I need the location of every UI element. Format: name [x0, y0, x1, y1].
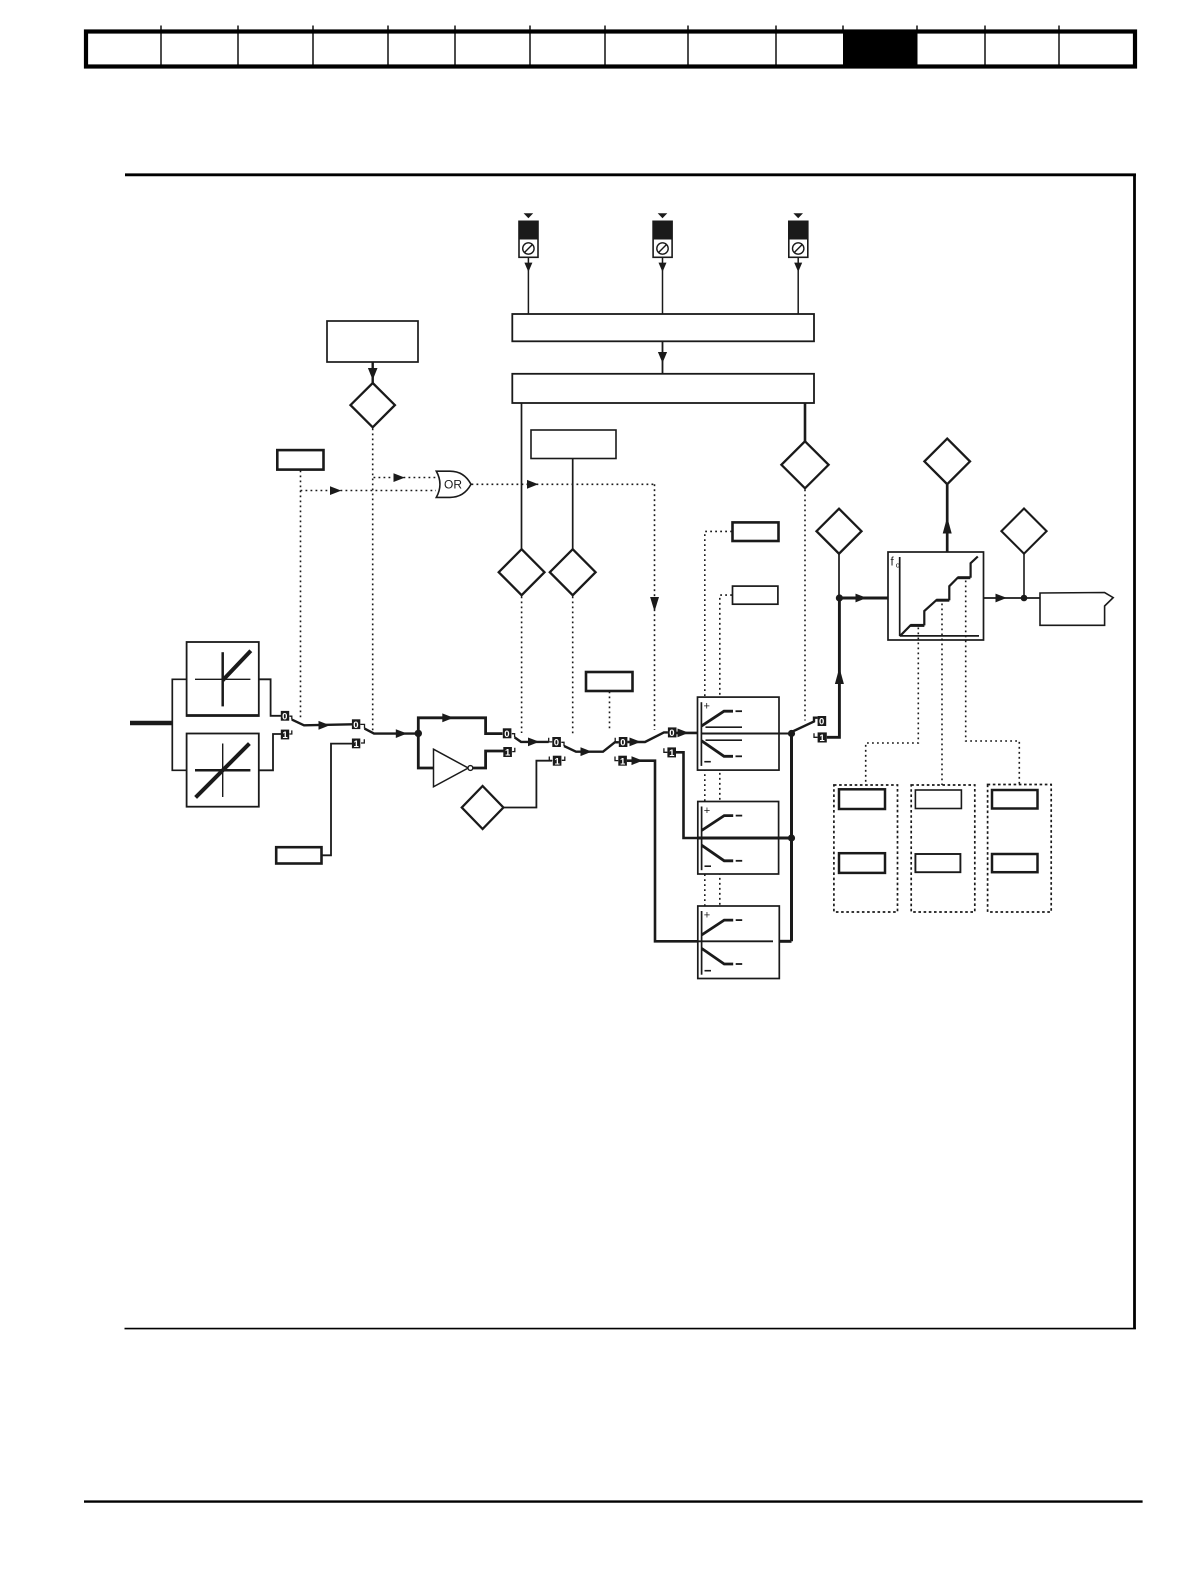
dotted control net from R1 to OR gate input 2 with arrow: [301, 471, 437, 719]
wire J1 lower branch into NOT gate: [418, 733, 433, 768]
dotted branch from D1 net to OR gate input 1 with arrow: [374, 473, 437, 482]
junction node J2: [836, 594, 843, 601]
limit block C3: [698, 906, 780, 979]
wire D7 to SW4 contact 1: [503, 761, 552, 808]
wire J2 to f(x) box with arrow: [839, 594, 888, 603]
parameter box R1 (small thick, left): [277, 450, 323, 470]
footer rule: [84, 1500, 1143, 1502]
switch SW5 contact 1: [615, 756, 627, 768]
main wire SWout 1 up to f(x) with up arrow: [827, 598, 844, 737]
parameter box B1 (top left): [327, 321, 418, 362]
parameter box R3 (small thick, middle): [586, 672, 633, 691]
wire R4 to SW2 contact 1: [322, 744, 353, 856]
switch SW4 contact 0: [552, 737, 564, 749]
dotted net OR output to down-arrow into switch SW3: [472, 480, 660, 730]
wire D4 down to junction J2: [838, 554, 840, 598]
svg-text:0: 0: [504, 729, 509, 740]
dotted control net R5 to limit blocks: [705, 531, 732, 906]
wire bar2 down to diamond D1b: [804, 403, 807, 442]
reference selector bar 1: [512, 314, 814, 341]
SW5 contact 1 wire with arrow to limit box C3: [627, 756, 698, 941]
transfer function box BB (bipolar): [187, 734, 259, 807]
decision diamond D6: [1001, 509, 1046, 554]
output bus joining C1 C2 C3: [779, 730, 795, 941]
dotted parameter group box A: [834, 785, 898, 912]
analog input pot terminal T2: [653, 213, 672, 314]
decision diamond D5: [924, 439, 970, 485]
dotted parameter group box C: [988, 785, 1052, 913]
wire R2 to diamond D3: [572, 459, 574, 550]
dotted control net D2 to switch SW4: [521, 597, 523, 734]
switch SW1 contact 1: [281, 730, 292, 742]
svg-text:1: 1: [819, 733, 825, 744]
header cell tick marks: [161, 26, 1059, 32]
output switch SWout pole wire: [792, 718, 818, 732]
parameter box R2: [531, 430, 616, 459]
dotted net f(x) right to parameter group C: [966, 581, 1020, 786]
input branch bracket: [172, 679, 186, 770]
output switch SWout contact 1: [814, 732, 827, 744]
wire bar2 to diamond D2: [521, 403, 523, 550]
NOT gate (inverter): [434, 749, 473, 787]
svg-text:+: +: [704, 909, 710, 921]
switch SW3 contact 0: [503, 728, 515, 740]
switch SW6 contact 1: [664, 747, 676, 759]
svg-text:OR: OR: [444, 478, 462, 492]
diagram frame right line: [1133, 174, 1136, 1329]
dotted parameter group box B: [911, 785, 975, 912]
decision diamond D1b: [781, 441, 828, 488]
dotted control net D1b to output switch SWout: [804, 490, 806, 721]
header cell dividers: [161, 33, 1059, 65]
svg-text:1: 1: [620, 756, 626, 767]
limit block C2: [698, 802, 779, 875]
decision diamond D1: [351, 383, 395, 427]
switch SW2 contact 1: [352, 739, 364, 751]
wire J1 upper branch to SW3 contact 0 with arrow: [418, 713, 502, 733]
switch SW1 contact 0: [281, 711, 292, 723]
parameter box R5 (thick, above limit blocks): [733, 522, 779, 541]
svg-text:1: 1: [282, 730, 288, 741]
junction node J1: [415, 730, 422, 737]
dotted control net D3 to switch SW4: [572, 597, 574, 736]
svg-text:0: 0: [554, 738, 559, 749]
parameter box R4 (small thick, lower left): [276, 847, 321, 863]
dotted net f(x) middle to parameter group B: [941, 604, 943, 786]
decision diamond D3: [550, 549, 596, 595]
switch SW6 contact 0: [668, 727, 677, 739]
switch SW5 contact 0: [615, 737, 627, 749]
dotted control net R6 to limit blocks: [720, 595, 732, 906]
OR gate: [436, 471, 471, 497]
dotted net f(x) left to parameter group A: [866, 628, 919, 786]
dotted control net R3 to switch SW5: [609, 692, 611, 732]
wire TB output to SW1 contact 0: [259, 679, 281, 716]
svg-text:0: 0: [669, 728, 674, 739]
wire NOT gate output to SW3 contact 1: [473, 751, 504, 768]
header navigation bar: [86, 26, 1135, 69]
svg-text:1: 1: [354, 739, 360, 750]
SW4 pole wire with arrow to SW5: [564, 742, 619, 756]
switch SW3 contact 1: [503, 747, 515, 759]
svg-text:1: 1: [555, 756, 561, 767]
junction node J3: [1021, 595, 1028, 602]
decision diamond D7 (below NOT gate): [462, 786, 504, 829]
output switch SWout contact 0: [818, 716, 827, 728]
diagram frame top line: [125, 173, 1136, 176]
svg-text:0: 0: [282, 711, 287, 722]
output reference flag: [1040, 593, 1113, 626]
SW3 pole wire with arrow to SW4: [515, 737, 553, 746]
wire D6 down to junction J3: [1023, 554, 1025, 598]
arrow B1 to diamond D1: [368, 362, 378, 384]
diagram frame bottom line: [125, 1328, 1136, 1330]
SW6 contact 1 wire to limit box C2: [676, 752, 698, 838]
SW2 pole wire with arrow to junction J1: [365, 729, 419, 738]
wire f(x) top to diamond D5 with up arrow: [943, 485, 952, 553]
svg-text:0: 0: [819, 717, 824, 728]
analog input pot terminal T3: [789, 213, 808, 314]
main input reference wire: [130, 721, 172, 726]
analog input pot terminal T1: [519, 213, 538, 314]
transfer function box TB (unipolar): [187, 642, 259, 716]
svg-text:0: 0: [620, 738, 625, 749]
parameter box R6 (thin, above limit blocks): [733, 586, 778, 604]
decision diamond D2: [499, 549, 545, 595]
skip frequency function box f(x): [888, 552, 984, 640]
wire BB output to SW1 contact 1: [259, 734, 281, 770]
arrow bar1 to bar2: [658, 341, 667, 374]
svg-text:1: 1: [669, 748, 675, 759]
switch SW2 contact 0: [352, 719, 365, 731]
dotted control net from D1 down to switch SW2: [372, 429, 374, 732]
svg-text:0: 0: [353, 720, 358, 731]
svg-text:1: 1: [505, 748, 511, 759]
svg-text:+: +: [704, 701, 710, 713]
SW6 pole wire with arrow to limit box C1: [677, 729, 698, 738]
SW5 pole wire with arrow to SW6: [627, 732, 668, 746]
limit block C1: [698, 697, 792, 770]
svg-text:+: +: [704, 805, 710, 817]
wire f(x) output to flag with arrow: [984, 594, 1041, 603]
SW1 pole wire with arrow to SW2: [292, 720, 352, 730]
reference selector bar 2: [512, 374, 814, 403]
decision diamond D4: [817, 509, 862, 554]
header active black cell: [843, 30, 918, 69]
switch SW4 contact 1: [549, 756, 565, 768]
